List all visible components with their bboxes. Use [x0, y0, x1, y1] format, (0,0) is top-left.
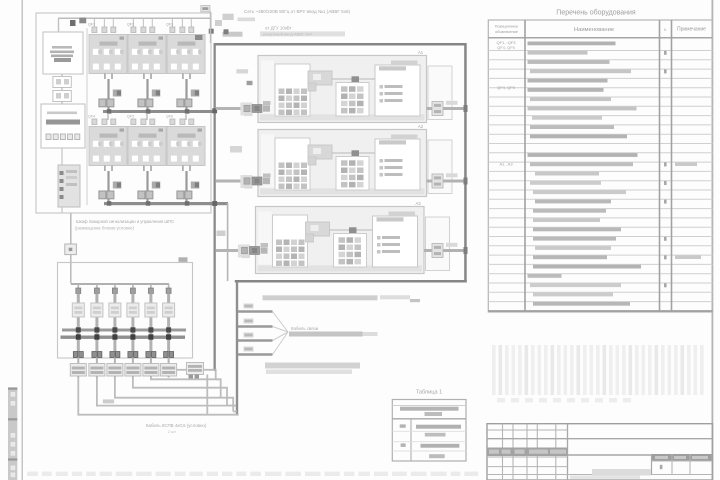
- wire harness line 2: [238, 319, 288, 333]
- node harness bottom label: [265, 363, 360, 375]
- capacitor ИП5 detector branch: [143, 288, 159, 378]
- transistor Q2 small switch 2: [53, 88, 71, 105]
- svg-text:QF6: QF6: [166, 115, 173, 119]
- breaker QF1: [88, 23, 127, 112]
- wire output wire А1: [427, 101, 468, 116]
- node cabinet ЩПС outer box: [36, 13, 211, 213]
- breaker QF6: [166, 115, 205, 204]
- svg-text:Примечание: Примечание: [677, 27, 706, 33]
- node detector box ШС: [58, 257, 193, 358]
- svg-text:QF4, QF5: QF4, QF5: [497, 45, 516, 50]
- breaker QF2: [127, 23, 166, 112]
- svg-text:Шкаф пожарной сигнализации и у: Шкаф пожарной сигнализации и управления …: [76, 219, 174, 224]
- node equipment table grid: [488, 20, 712, 312]
- svg-text:(размещение блоков условно): (размещение блоков условно): [75, 226, 134, 231]
- capacitor ИП6 detector branch: [161, 288, 177, 378]
- node wire tag B: [230, 146, 242, 153]
- node feeder label 3: [260, 31, 345, 36]
- svg-text:Позиционное: Позиционное: [495, 25, 518, 29]
- wire input wire А2: [216, 174, 271, 189]
- svg-text:QF1: QF1: [88, 23, 95, 27]
- svg-text:А1...А3: А1...А3: [499, 162, 513, 167]
- svg-text:QF4: QF4: [88, 115, 95, 119]
- node feeder label 1: [244, 9, 351, 14]
- capacitor ИП4 detector branch: [125, 288, 141, 378]
- svg-text:2 шт.: 2 шт.: [168, 430, 177, 434]
- svg-text:QF3: QF3: [166, 23, 173, 27]
- op-amp U1 UPS box ИБП: [43, 32, 83, 74]
- wire bus to row2 stubs: [108, 113, 186, 120]
- node title block изм row text: [489, 450, 566, 454]
- svg-text:QF2: QF2: [127, 23, 134, 27]
- wire output wire А3: [424, 243, 468, 258]
- transistor Q1 small switch 1: [53, 74, 71, 88]
- wire inner vertical riser: [227, 203, 229, 281]
- breaker QF3: [166, 23, 205, 112]
- node harness top label: [263, 295, 421, 302]
- node wire tag label box: [201, 6, 210, 12]
- wire branch drops: [78, 284, 168, 288]
- node small table: [392, 400, 466, 462]
- svg-text:QF5: QF5: [127, 115, 134, 119]
- node bus1 junction: [212, 108, 217, 113]
- node title block лит cells: [652, 454, 713, 475]
- wire trunk frame bottom edge: [235, 280, 467, 283]
- node equipment table rows: [497, 40, 701, 306]
- wire detector feed bus: [71, 283, 169, 285]
- wire module column left edge: [86, 28, 88, 205]
- wire alarm bus lower: [61, 334, 186, 339]
- wire feed from cabinet: [65, 214, 77, 284]
- svg-text:Таблица 1: Таблица 1: [416, 390, 443, 396]
- breaker QF4: [88, 115, 127, 204]
- svg-text:обозначение: обозначение: [495, 30, 518, 34]
- node junction terminals XT0: [70, 18, 86, 26]
- wire input wire А3: [216, 243, 268, 258]
- resistor R1 charger unit tall box: [58, 148, 80, 213]
- node feeder label 2: [265, 26, 292, 31]
- breaker QF5: [127, 115, 166, 204]
- node cable bundle label: [289, 326, 378, 337]
- node cable label bottom: [103, 399, 207, 434]
- svg-text:Наименование: Наименование: [574, 27, 614, 33]
- node left frame stamp strip: [8, 387, 17, 480]
- node equipment table title: [556, 9, 636, 17]
- node bus2 junction: [212, 201, 217, 206]
- wire right page border line: [711, 0, 713, 480]
- node scan artifact stripes: [492, 345, 704, 403]
- node title block doc number: [570, 469, 651, 479]
- svg-text:Перечень оборудования: Перечень оборудования: [556, 9, 636, 17]
- wire harness line 3: [238, 332, 288, 341]
- wire trunk frame right edge: [464, 43, 467, 283]
- svg-text:резервный ввод АВВГ 5х4: резервный ввод АВВГ 5х4: [263, 32, 312, 37]
- op-amp А3 device block ППКП: [256, 201, 450, 274]
- op-amp А1 device block ППКП: [258, 50, 452, 123]
- node wire tag A: [236, 69, 252, 85]
- capacitor ИП2 detector branch: [89, 288, 105, 378]
- node wire tag C: [217, 231, 226, 237]
- node cabinet caption: [75, 219, 174, 231]
- wire input wire А1: [216, 101, 271, 116]
- svg-text:А2: А2: [418, 124, 424, 129]
- wire staircase harness: [78, 370, 238, 415]
- svg-text:QF4, QF5: QF4, QF5: [497, 85, 516, 90]
- svg-text:А3: А3: [416, 201, 422, 206]
- svg-text:К.: К.: [664, 28, 667, 32]
- svg-text:Сеть ~380/220В 50Гц от ВРУ вво: Сеть ~380/220В 50Гц от ВРУ ввод №1 (АВВГ…: [244, 9, 351, 14]
- wire alarm bus upper: [62, 327, 186, 332]
- wire harness line 1: [238, 304, 288, 333]
- svg-text:Кабель КСПВ 4х0,5 (условно): Кабель КСПВ 4х0,5 (условно): [146, 423, 207, 428]
- svg-text:от ДГУ 10кВт: от ДГУ 10кВт: [265, 26, 292, 31]
- wire left page border line: [21, 0, 23, 480]
- wire trunk frame left edge: [214, 43, 216, 370]
- wire bus N1: [103, 109, 214, 114]
- svg-text:А1: А1: [418, 50, 424, 55]
- node small table title: [416, 390, 443, 396]
- capacitor ИП3 detector branch: [107, 288, 123, 378]
- node equipment table headers: [495, 25, 706, 34]
- node title block: [487, 424, 713, 480]
- wire bus N2: [104, 201, 228, 206]
- wire dark vertical from frame: [214, 369, 216, 372]
- node terminal block XT1: [41, 104, 85, 148]
- node terminal box XT7: [187, 363, 204, 379]
- svg-text:Кабель связи: Кабель связи: [291, 326, 319, 331]
- wire trunk frame top edge: [214, 43, 467, 46]
- wire output wire А2: [427, 173, 468, 188]
- wire cable riser down: [236, 282, 238, 416]
- op-amp А2 device block ППКП: [258, 124, 452, 197]
- wire bottom fold marks: [27, 472, 478, 476]
- node junction cluster top: [195, 12, 255, 43]
- capacitor ИП1 detector branch: [70, 288, 86, 378]
- wire harness line 4: [238, 332, 288, 355]
- wire top distribution wire: [58, 18, 211, 32]
